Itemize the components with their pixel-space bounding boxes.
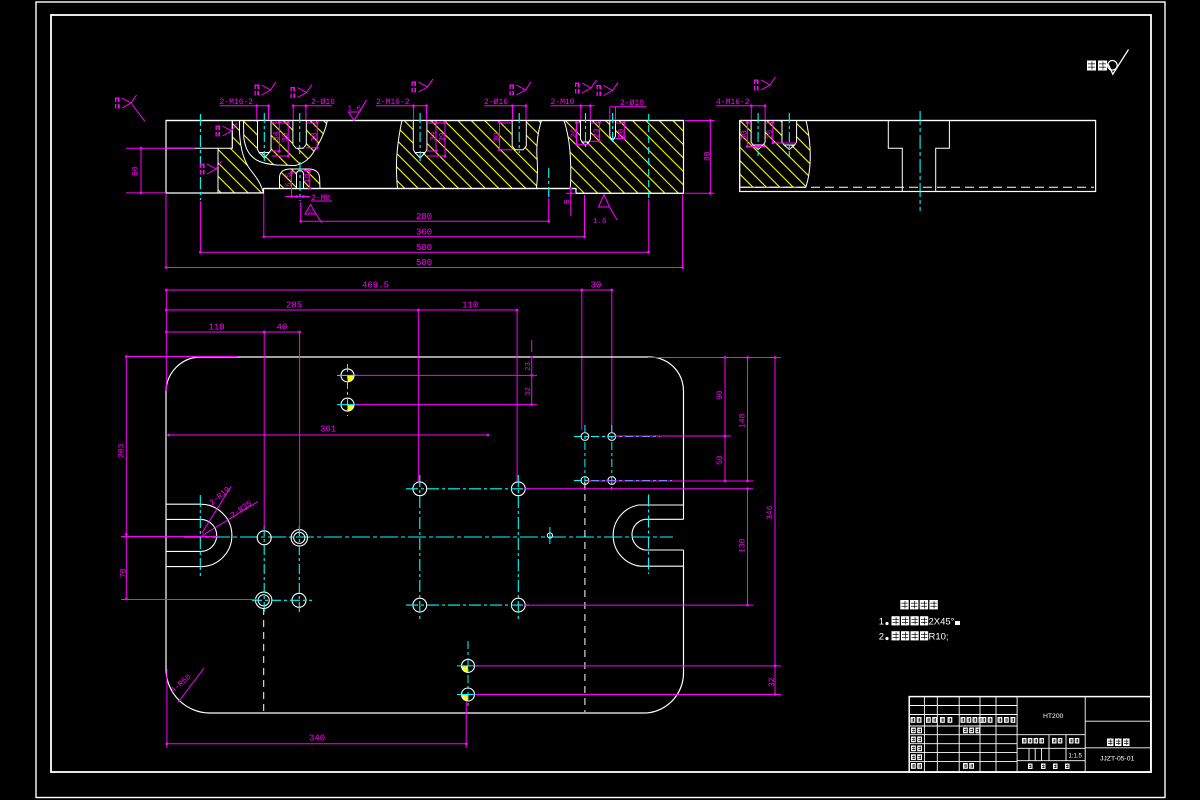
technical requirements text: [900, 600, 908, 609]
centerline dashed cyan right of left piece: [648, 114, 650, 198]
section view left piece hatch left block: [218, 121, 263, 193]
title block row labels: [911, 717, 916, 723]
dim 23 32 small vertical right of yellow holes: [531, 357, 533, 375]
roughness symbol top left corner: [122, 98, 131, 108]
svg-text:469.5: 469.5: [362, 281, 389, 291]
svg-text:500: 500: [416, 243, 432, 253]
svg-text:50: 50: [716, 455, 725, 465]
roughness symbol above H3: [419, 82, 428, 92]
plan hole A r7: [257, 531, 271, 545]
svg-text:2: 2: [879, 632, 884, 643]
plan right slot vertical centerline: [648, 495, 650, 575]
plan hole B double: [291, 530, 307, 546]
svg-text:R10;: R10;: [929, 632, 949, 643]
svg-text:32: 32: [525, 387, 533, 396]
section hatch middle region: [396, 121, 541, 189]
dim 39 H3: [444, 123, 446, 157]
hole H4 counterbore 16: [512, 121, 526, 150]
plan yellow-marked holes top pair: [348, 375, 355, 382]
plan small holes 4x: [581, 433, 589, 441]
dim 360: [264, 236, 585, 238]
plan hole C double: [256, 592, 272, 608]
svg-text:18: 18: [303, 173, 312, 183]
section centerline left: [199, 114, 201, 200]
plan view outline rounded plate: [166, 357, 684, 713]
svg-text:39: 39: [438, 132, 447, 142]
svg-text:90: 90: [716, 390, 725, 400]
leader 2-R19: [202, 487, 231, 534]
svg-text:HT200: HT200: [1043, 713, 1064, 720]
dim 203 and 70 left side: [125, 357, 127, 535]
section hatch right region: [564, 121, 684, 194]
centerline H1: [263, 113, 265, 161]
roughness symbol inside left block: [223, 126, 232, 136]
plan big cluster holes 4x: [413, 482, 427, 496]
redraw right piece top edge: [740, 120, 1096, 122]
svg-text:20: 20: [618, 128, 627, 138]
svg-text:1.6: 1.6: [593, 218, 607, 226]
dim 32 far right bottom: [774, 666, 776, 695]
label 2-M8: [285, 196, 310, 198]
centerline H6: [612, 113, 614, 144]
section hatch M8 boss blob: [280, 169, 321, 189]
svg-text:23: 23: [593, 128, 602, 138]
dim 580: [166, 267, 683, 269]
plan long horizontal centerline: [184, 536, 673, 538]
svg-text:148: 148: [739, 413, 748, 428]
svg-text:32: 32: [308, 208, 315, 215]
dim 148 right side: [747, 358, 749, 482]
leader 4-R50: [178, 668, 204, 703]
right piece centerlines: [757, 113, 759, 156]
dim 340 bottom: [167, 743, 466, 745]
svg-text:285: 285: [286, 301, 302, 311]
right piece T slot counterbore: [888, 121, 949, 192]
dim 5.5 M8: [291, 172, 293, 197]
tapped hole H5 M10: [581, 121, 591, 143]
right piece hole RA M16: [751, 121, 765, 146]
svg-text:130: 130: [739, 538, 748, 553]
svg-text:580: 580: [416, 258, 432, 268]
roughness symbol left notch: [207, 164, 216, 174]
svg-text:JJZT-05-01: JJZT-05-01: [1100, 755, 1135, 762]
svg-text:30: 30: [591, 281, 602, 291]
dim 346 far right: [774, 358, 776, 666]
right piece hidden dashed line: [741, 186, 1094, 188]
cluster cyan box lines: [419, 475, 421, 620]
redraw top and bottom edges over hole mouths: [166, 120, 684, 122]
centerline H3: [419, 113, 421, 161]
svg-text:280: 280: [416, 212, 432, 222]
section left step lines: [166, 147, 218, 149]
plan hole D r7: [292, 593, 306, 607]
dim 23 H5: [599, 123, 601, 142]
plan right extension lines: [648, 357, 781, 359]
roughness symbol above H4: [517, 85, 526, 95]
dim 30 RA: [746, 123, 748, 147]
dim 39 H1: [287, 123, 289, 157]
roughness symbols above H5 H6: [582, 83, 591, 93]
title block outline: [909, 697, 1151, 773]
dim 285 and 110 top: [166, 309, 418, 311]
plan top edge magenta overlay extension: [126, 356, 238, 358]
dim 50 left: [140, 148, 142, 193]
dim 110 and 40: [166, 331, 264, 333]
plan right slot keyhole: [639, 505, 684, 566]
hole M8 bottom: [297, 171, 304, 189]
svg-text:1:1.5: 1:1.5: [1069, 754, 1083, 760]
dim 90 and 50 right side: [724, 358, 726, 437]
dim 30 H4: [499, 123, 501, 150]
svg-text:203: 203: [118, 443, 127, 458]
svg-text:26: 26: [766, 129, 775, 139]
svg-text:39: 39: [282, 132, 291, 142]
svg-text:40: 40: [277, 323, 288, 333]
plan hole columns centerlines: [263, 526, 265, 612]
svg-text:1: 1: [879, 617, 884, 628]
hole H2 counterbore 16: [293, 121, 306, 149]
plan left slot vertical centerline: [199, 495, 201, 576]
centerline H2 and M8: [299, 113, 301, 154]
dim 280: [301, 220, 549, 222]
title block middle and right dividers: [1084, 697, 1086, 773]
svg-text:26: 26: [570, 128, 579, 138]
right piece outline: [740, 121, 1096, 192]
surface symbol below 2-M8: [305, 205, 316, 215]
dim 18 M8: [309, 171, 311, 189]
svg-text:23: 23: [525, 361, 533, 371]
svg-text:30: 30: [493, 132, 502, 142]
hole H6 10: [610, 121, 616, 139]
dim 26 H5: [576, 123, 578, 145]
centerline mid void: [548, 168, 550, 198]
plan left U slot: [166, 504, 201, 566]
dim 34 H3: [435, 123, 437, 152]
dim 30 H2: [316, 123, 318, 148]
roughness symbol above H2: [298, 88, 307, 98]
dim 26 RB: [772, 123, 774, 144]
svg-text:30: 30: [741, 130, 750, 140]
centerline H5: [585, 113, 587, 147]
svg-text:34: 34: [429, 131, 438, 141]
svg-text:2X45°: 2X45°: [929, 617, 955, 628]
dim 469.5 and 30: [166, 289, 582, 291]
surface finish mark qiyu top right: [1087, 61, 1096, 71]
leader 2-R35: [202, 502, 259, 537]
svg-text:360: 360: [416, 227, 432, 237]
title block grid left zone: [923, 697, 925, 773]
dim 20 H6: [623, 123, 625, 139]
right piece hole RB M16: [782, 121, 797, 146]
section view right piece hatch: [740, 121, 811, 188]
svg-text:361: 361: [320, 425, 336, 435]
dim 130 right side: [747, 489, 749, 605]
section body outline: [166, 121, 684, 194]
svg-text:110: 110: [209, 323, 225, 333]
dim 500: [200, 251, 648, 253]
svg-text:34: 34: [273, 131, 282, 141]
plan center point marker: [547, 533, 552, 538]
svg-text:50: 50: [132, 166, 141, 176]
svg-text:346: 346: [766, 505, 775, 520]
dim 5 step right: [570, 189, 572, 217]
roughness symbol above H1: [262, 85, 271, 95]
svg-text:80: 80: [704, 151, 713, 161]
small holes cyan lines: [584, 425, 586, 492]
svg-text:110: 110: [462, 301, 478, 311]
dim 34 H1: [278, 123, 280, 152]
svg-text:30: 30: [311, 132, 320, 142]
svg-text:32: 32: [768, 677, 777, 687]
dim 361: [169, 434, 488, 436]
plan white dashed hidden lines: [263, 608, 265, 712]
roughness symbol right piece: [761, 80, 770, 90]
centerline H4: [518, 113, 520, 153]
plan yellow-marked holes bottom pair: [462, 666, 469, 673]
svg-text:340: 340: [309, 733, 325, 743]
surface symbol 1.6 bottom step: [599, 195, 610, 208]
section hatch upper band with screw holes: [244, 121, 328, 166]
svg-text:5: 5: [564, 199, 573, 204]
dim 80 right: [709, 121, 711, 194]
svg-text:70: 70: [120, 568, 129, 578]
tapped hole H3 2-M16: [413, 121, 427, 153]
tapped hole H1 2-M16 left: [258, 121, 272, 153]
svg-text:5.5: 5.5: [285, 172, 294, 187]
